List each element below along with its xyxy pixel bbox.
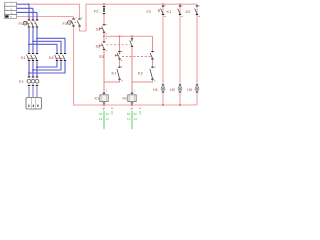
pin specks F2 aux xyxy=(164,5,166,17)
svg-text:K2: K2 xyxy=(186,9,191,14)
pin specks S3 xyxy=(121,51,123,61)
wire S1 to node xyxy=(103,33,105,42)
cross reference table K2 xyxy=(127,108,141,129)
wire S3NO to K2 aux xyxy=(152,60,154,67)
node bottom K1 coil xyxy=(103,104,105,106)
svg-text:2: 2 xyxy=(131,107,133,111)
wire F3 pole2 out up to control rail xyxy=(80,4,105,31)
contactor K2 pole1 xyxy=(55,53,59,61)
contactor K2 pole2 xyxy=(59,53,63,61)
wire right column F2aux down xyxy=(162,4,164,85)
wire phase1 to motor xyxy=(28,86,30,97)
wire tap phase1 to K2 pole1 xyxy=(29,44,57,53)
pin specks K1 aux xyxy=(181,5,183,17)
lamp H1 xyxy=(161,84,165,105)
node tap phase1 to K2 xyxy=(28,43,30,45)
node merge phase2 xyxy=(32,69,34,71)
mechanical link S3 dashed xyxy=(122,55,151,57)
svg-text:F1: F1 xyxy=(19,21,24,26)
lamp H2 xyxy=(178,84,182,105)
contact K2 aux NO xyxy=(195,5,199,15)
wire L3 vertical drop to F1 pole3 xyxy=(36,12,38,20)
node tap phase3 to K2 xyxy=(36,37,38,39)
lamp H3 xyxy=(195,84,199,105)
node merge phase1 xyxy=(28,72,30,74)
node rail at K1 aux xyxy=(162,3,164,5)
node branch to K2 line xyxy=(131,35,133,37)
svg-text:43: 43 xyxy=(99,112,103,116)
wire K1 selfhold to coil node xyxy=(104,80,120,82)
pushbutton S1 (NC) xyxy=(100,24,105,33)
breaker F3 linkage dashed xyxy=(75,21,79,23)
wire phase2 to motor xyxy=(32,86,34,97)
wire L1 vertical drop to F1 pole1 xyxy=(28,4,30,20)
wire branch horizontal after S1 xyxy=(104,35,153,37)
motor terminal box xyxy=(26,98,42,110)
wire K1 pole1 output down xyxy=(28,61,30,77)
pin specks S2 xyxy=(106,38,108,51)
wire S3 to K1 aux contact xyxy=(119,60,121,67)
wire L1 horizontal (blue) xyxy=(17,3,30,5)
contact S2 NC (interlock) xyxy=(130,38,134,46)
breaker F1 pole3 xyxy=(35,19,39,27)
svg-text:K1: K1 xyxy=(21,55,26,60)
contactor K1 pole1 xyxy=(27,53,31,61)
svg-text:13: 13 xyxy=(127,117,131,121)
pin specks F3 xyxy=(75,17,83,20)
svg-text:44: 44 xyxy=(106,112,110,116)
contact F2 thermal aux xyxy=(159,5,165,15)
thermal overload F2 element2 xyxy=(31,76,35,86)
svg-text:H3: H3 xyxy=(187,87,192,92)
node bottom H2 xyxy=(179,104,181,106)
svg-text:1: 1 xyxy=(134,89,136,93)
svg-text:F2: F2 xyxy=(147,9,152,14)
svg-text:H2: H2 xyxy=(170,87,175,92)
wire N horizontal (red) xyxy=(17,16,74,18)
wire phase3 to motor xyxy=(36,86,38,97)
wire K2 pole2 output to phase2 line xyxy=(33,61,61,70)
node L1 control tap junction xyxy=(28,3,30,5)
wire phase1 below F1 xyxy=(28,28,30,53)
node tap phase2 to K2 xyxy=(32,40,34,42)
wire K1 pole3 output down xyxy=(36,61,38,77)
wire selfhold K2 branch from node corner xyxy=(152,36,154,51)
breaker F1 pole1 xyxy=(27,19,31,27)
pushbutton S2 NO contact xyxy=(100,41,105,49)
svg-text:62: 62 xyxy=(134,112,138,116)
node branch after S1 xyxy=(103,35,105,37)
node bottom H1 xyxy=(162,104,164,106)
node branch to selfhold K1 xyxy=(119,35,121,37)
wire column K1aux down xyxy=(179,4,181,85)
wire K1 pole2 output down xyxy=(32,61,34,77)
wire S2 down to coil node xyxy=(103,50,105,93)
svg-text:13: 13 xyxy=(99,117,103,121)
contactor K1 pole3 xyxy=(35,53,39,61)
svg-text:K1: K1 xyxy=(112,70,117,75)
cross reference table K1 xyxy=(99,108,113,129)
wire S2NC down to coil K2 node xyxy=(131,47,133,93)
wire K2 branch down from node xyxy=(131,36,133,38)
svg-text:K2: K2 xyxy=(138,70,143,75)
wire control feed L1 (red) to F3 xyxy=(29,4,80,18)
svg-text:1: 1 xyxy=(106,89,108,93)
bottom rail N xyxy=(104,104,197,106)
breaker F3 operator circle xyxy=(68,21,72,25)
wire tap phase3 to K2 pole3 xyxy=(37,38,65,53)
contactor K1 pole2 xyxy=(31,53,35,61)
breaker F3 pole1 xyxy=(71,18,75,26)
thermal overload F2 element1 xyxy=(27,76,31,86)
contact K1 selfhold NO xyxy=(117,67,121,80)
svg-text:H1: H1 xyxy=(153,87,158,92)
coil K1 xyxy=(100,93,108,105)
wire K2 pole1 output to phase3 line xyxy=(37,61,57,67)
contact K2 selfhold NO xyxy=(150,67,154,80)
svg-text:61: 61 xyxy=(127,112,131,116)
svg-text:K1: K1 xyxy=(95,95,100,100)
wire L2 vertical drop to F1 pole2 xyxy=(32,8,34,20)
svg-text:F2: F2 xyxy=(94,9,99,14)
breaker F1 operator circle xyxy=(23,21,27,25)
wire phase2 below F1 xyxy=(32,28,34,53)
breaker F1 pole2 xyxy=(31,19,35,27)
node rail F2 fuse xyxy=(103,3,105,5)
node merge phase3 xyxy=(36,66,38,68)
node rail at K2 aux xyxy=(179,3,181,5)
pin specks K1 selfhold xyxy=(121,66,123,81)
wire L2 horizontal (blue) xyxy=(17,7,34,9)
svg-text:F3: F3 xyxy=(63,21,68,26)
svg-text:N: N xyxy=(10,16,12,19)
svg-text:14: 14 xyxy=(134,117,138,121)
wire phase3 below F1 xyxy=(36,28,38,53)
svg-text:F2: F2 xyxy=(19,79,24,84)
thermal overload F2 element3 xyxy=(35,76,39,86)
breaker F1 linkage dashed xyxy=(28,22,36,24)
coil K2 xyxy=(128,93,136,105)
contact K1 aux NO xyxy=(178,5,182,15)
wire K2 selfhold to coil node xyxy=(132,80,153,82)
contactor K2 pole3 xyxy=(63,53,67,61)
wire N corner into F3 pole1 xyxy=(73,17,75,19)
svg-text:K1: K1 xyxy=(167,9,172,14)
svg-text:K2: K2 xyxy=(123,95,128,100)
terminal block X1 xyxy=(5,2,17,19)
svg-text:S3: S3 xyxy=(99,54,104,59)
pin specks K2 aux xyxy=(198,5,200,17)
mechanical link S2 dashed xyxy=(107,44,131,46)
pin specks S1 xyxy=(106,24,108,34)
pushbutton S3 NC contact xyxy=(115,51,120,60)
contactor K1 linkage dashed xyxy=(27,57,35,59)
wire selfhold branch down from node xyxy=(119,36,121,51)
wire K2 pole3 output to phase1 line xyxy=(29,61,65,73)
fuse F2 xyxy=(103,4,105,24)
control rail top xyxy=(104,4,197,16)
wire N below F3 down to bottom rail xyxy=(74,27,105,105)
contactor K2 linkage dashed xyxy=(55,57,63,59)
node bottom K2 coil xyxy=(131,104,133,106)
svg-text:2: 2 xyxy=(103,107,105,111)
wire tap phase2 to K2 pole2 xyxy=(33,41,61,53)
svg-text:K2: K2 xyxy=(49,55,54,60)
wire column K2aux down xyxy=(196,16,198,85)
svg-text:14: 14 xyxy=(106,117,110,121)
breaker F3 pole2 xyxy=(77,18,81,26)
pin specks K2 selfhold xyxy=(154,66,156,81)
contact S3 NO (selfhold K2 branch) xyxy=(150,51,154,60)
wire L3 horizontal (blue) xyxy=(17,11,38,13)
